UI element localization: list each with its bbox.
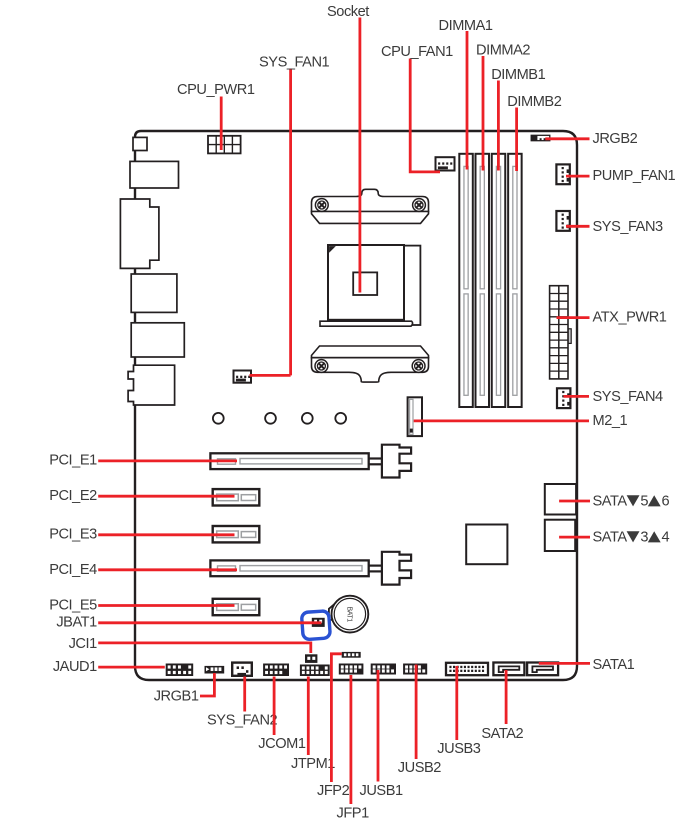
svg-text:JBAT1: JBAT1 bbox=[56, 615, 97, 631]
svg-text:PCI_E3: PCI_E3 bbox=[49, 527, 97, 543]
label DIMMB1 bbox=[491, 67, 545, 83]
label CPU_FAN1 bbox=[381, 44, 453, 60]
svg-text:DIMMB1: DIMMB1 bbox=[491, 67, 545, 83]
label SYS_FAN3 bbox=[593, 219, 664, 235]
wire DIMMA1 leader bbox=[466, 31, 469, 170]
label PUMP_FAN1 bbox=[593, 168, 676, 184]
svg-text:ATX_PWR1: ATX_PWR1 bbox=[593, 310, 667, 326]
svg-text:JTPM1: JTPM1 bbox=[291, 756, 335, 772]
label JFP2 bbox=[317, 783, 350, 799]
port SATA2 bbox=[493, 663, 524, 676]
mounting holes bbox=[213, 413, 346, 424]
slot PCI_E2 bbox=[213, 489, 260, 505]
wire CPU_FAN1 leader bbox=[410, 59, 440, 172]
slot PCI_E4 bbox=[210, 552, 411, 585]
connector ATX_PWR1 bbox=[550, 286, 572, 379]
header JUSB3 bbox=[446, 663, 488, 675]
wire SYS_FAN4 leader bbox=[564, 395, 590, 398]
wire Socket leader bbox=[358, 18, 361, 293]
wire JBAT1 leader bbox=[98, 621, 321, 624]
svg-text:PCI_E2: PCI_E2 bbox=[49, 488, 97, 504]
label M2_1 bbox=[593, 413, 628, 429]
wire JCI1 leader bbox=[98, 643, 311, 653]
header JRGB1 bbox=[205, 666, 225, 674]
label JFP1 bbox=[337, 806, 370, 822]
svg-text:JUSB1: JUSB1 bbox=[360, 783, 404, 799]
battery BAT1 bbox=[329, 596, 368, 633]
svg-text:DIMMB2: DIMMB2 bbox=[507, 94, 561, 110]
svg-text:SATA: SATA bbox=[593, 493, 628, 509]
svg-text:PCI_E5: PCI_E5 bbox=[49, 597, 97, 613]
label JUSB1 bbox=[360, 783, 404, 799]
rear I/O port USB-LAN lower bbox=[131, 323, 184, 357]
wire DIMMA2 leader bbox=[482, 56, 485, 171]
wire PCI_E4 leader bbox=[98, 568, 237, 571]
wire JUSB3 leader bbox=[455, 666, 458, 740]
board outline bbox=[135, 131, 577, 680]
connector SYS_FAN3 bbox=[556, 211, 569, 231]
label SATA2 bbox=[481, 726, 523, 742]
wire SYS_FAN1 leader bbox=[250, 69, 291, 376]
connector SYS_FAN2 bbox=[232, 663, 252, 676]
label JCI1 bbox=[69, 636, 98, 652]
label SYS_FAN4 bbox=[593, 389, 664, 405]
connector SATA 3-4 bbox=[545, 520, 575, 551]
wire SATA2 leader bbox=[505, 670, 508, 724]
label PCI_E2 bbox=[49, 488, 97, 504]
label SATA 5-6 bbox=[593, 493, 670, 509]
label SYS_FAN2 bbox=[207, 713, 278, 729]
svg-text:JCI1: JCI1 bbox=[69, 636, 98, 652]
svg-text:JUSB3: JUSB3 bbox=[437, 741, 481, 757]
svg-text:CPU_PWR1: CPU_PWR1 bbox=[177, 82, 255, 98]
wire DIMMB1 leader bbox=[497, 81, 500, 171]
svg-text:M2_1: M2_1 bbox=[593, 413, 628, 429]
rear I/O audio jacks bbox=[128, 365, 175, 405]
svg-text:JAUD1: JAUD1 bbox=[53, 659, 97, 675]
wire SYS_FAN2 leader bbox=[243, 677, 246, 712]
svg-text:DIMMA2: DIMMA2 bbox=[476, 42, 530, 58]
connector SATA 5-6 bbox=[545, 484, 576, 515]
connector CPU_FAN1 bbox=[436, 157, 455, 170]
label SATA1 bbox=[593, 657, 635, 673]
rear I/O port PS2 bbox=[130, 161, 179, 188]
svg-text:CPU_FAN1: CPU_FAN1 bbox=[381, 44, 453, 60]
svg-text:PCI_E1: PCI_E1 bbox=[49, 452, 97, 468]
svg-text:4: 4 bbox=[662, 529, 670, 545]
header JCOM1 bbox=[263, 664, 289, 677]
socket AM4 lever rail bbox=[404, 246, 421, 325]
rear I/O port DVI bbox=[120, 199, 158, 268]
wire CPU_PWR1 leader bbox=[220, 97, 223, 151]
rear I/O small square bbox=[133, 137, 147, 150]
header JUSB1 bbox=[371, 664, 396, 675]
label DIMMA1 bbox=[439, 18, 493, 34]
header JFP2 bbox=[342, 652, 361, 658]
connector M2_1 bbox=[408, 397, 422, 436]
svg-text:DIMMA1: DIMMA1 bbox=[439, 18, 493, 34]
slot PCI_E3 bbox=[213, 526, 260, 542]
wire JUSB1 leader bbox=[377, 670, 380, 782]
wire JFP1 leader bbox=[349, 675, 352, 804]
label Socket bbox=[327, 4, 369, 20]
connector SYS_FAN1 header bbox=[234, 371, 252, 383]
jumper JCI1 bbox=[305, 654, 317, 663]
wire JTPM1 leader bbox=[307, 677, 310, 756]
wire JRGB1 leader bbox=[200, 673, 214, 696]
svg-text:JRGB1: JRGB1 bbox=[154, 688, 199, 704]
socket bottom bracket bbox=[312, 346, 429, 382]
svg-text:SATA2: SATA2 bbox=[481, 726, 523, 742]
label PCI_E5 bbox=[49, 597, 97, 613]
socket top bracket bbox=[312, 189, 429, 223]
port SATA1 bbox=[527, 663, 558, 676]
wire JUSB2 leader bbox=[415, 665, 418, 760]
wire JAUD1 leader bbox=[98, 666, 165, 669]
header JTPM1 bbox=[300, 665, 330, 677]
svg-text:SATA1: SATA1 bbox=[593, 657, 635, 673]
wire DIMMB2 leader bbox=[515, 108, 518, 172]
label JUSB3 bbox=[437, 741, 481, 757]
DIMM slots DIMMA1 DIMMA2 DIMMB1 DIMMB2 bbox=[459, 154, 521, 407]
svg-text:JUSB2: JUSB2 bbox=[398, 760, 442, 776]
label ATX_PWR1 bbox=[593, 310, 667, 326]
wire PCI_E2 leader bbox=[98, 495, 234, 498]
label PCI_E4 bbox=[49, 562, 97, 578]
wire PCI_E5 leader bbox=[98, 604, 234, 607]
connector CPU_PWR1 bbox=[208, 136, 241, 154]
svg-text:BAT1: BAT1 bbox=[345, 607, 352, 623]
svg-text:JRGB2: JRGB2 bbox=[593, 131, 638, 147]
wire SATA 3-4 leader bbox=[559, 536, 590, 539]
svg-text:5: 5 bbox=[640, 493, 648, 509]
label CPU_PWR1 bbox=[177, 82, 255, 98]
label DIMMB2 bbox=[507, 94, 561, 110]
svg-text:SYS_FAN4: SYS_FAN4 bbox=[593, 389, 664, 405]
label PCI_E3 bbox=[49, 527, 97, 543]
wire SYS_FAN3 leader bbox=[566, 225, 590, 228]
svg-text:JFP2: JFP2 bbox=[317, 783, 350, 799]
slot PCI_E5 bbox=[213, 599, 260, 615]
header JUSB2 bbox=[403, 664, 427, 675]
jumper JBAT1 bbox=[301, 611, 330, 640]
slot PCI_E1 bbox=[210, 445, 411, 478]
label PCI_E1 bbox=[49, 452, 97, 468]
svg-text:JCOM1: JCOM1 bbox=[258, 736, 306, 752]
wire PCI_E3 leader bbox=[98, 533, 234, 536]
wire PCI_E1 leader bbox=[98, 459, 237, 462]
connector PUMP_FAN1 bbox=[556, 164, 569, 184]
header JFP1 bbox=[339, 664, 364, 675]
label JCOM1 bbox=[258, 736, 306, 752]
label JUSB2 bbox=[398, 760, 442, 776]
svg-text:PUMP_FAN1: PUMP_FAN1 bbox=[593, 168, 676, 184]
wire SATA1 leader bbox=[539, 662, 590, 665]
label JRGB2 bbox=[593, 131, 638, 147]
wire JFP2 leader bbox=[331, 654, 341, 782]
label JTPM1 bbox=[291, 756, 335, 772]
svg-text:Socket: Socket bbox=[327, 4, 369, 20]
svg-text:JFP1: JFP1 bbox=[337, 806, 370, 822]
label JRGB1 bbox=[154, 688, 199, 704]
connector JRGB2 bbox=[531, 135, 550, 140]
svg-text:6: 6 bbox=[662, 493, 670, 509]
label JAUD1 bbox=[53, 659, 97, 675]
chipset bbox=[466, 525, 507, 565]
wire JCOM1 leader bbox=[273, 677, 276, 736]
wire SATA 5-6 leader bbox=[559, 500, 590, 503]
svg-text:SYS_FAN3: SYS_FAN3 bbox=[593, 219, 664, 235]
wire M2_1 leader bbox=[414, 419, 589, 422]
connector SYS_FAN4 bbox=[557, 388, 570, 408]
svg-text:3: 3 bbox=[640, 529, 648, 545]
socket AM4 body bbox=[328, 245, 404, 320]
svg-text:SATA: SATA bbox=[593, 529, 628, 545]
label SATA 3-4 bbox=[593, 529, 670, 545]
label SYS_FAN1 bbox=[259, 54, 330, 70]
label JBAT1 bbox=[56, 615, 97, 631]
socket bottom bar bbox=[320, 321, 413, 326]
svg-text:SYS_FAN1: SYS_FAN1 bbox=[259, 54, 330, 70]
wire ATX_PWR1 leader bbox=[557, 316, 590, 319]
wire JRGB2 leader bbox=[545, 137, 589, 140]
rear I/O port USB-LAN upper bbox=[131, 274, 177, 312]
label DIMMA2 bbox=[476, 42, 530, 58]
svg-text:SYS_FAN2: SYS_FAN2 bbox=[207, 713, 278, 729]
svg-text:PCI_E4: PCI_E4 bbox=[49, 562, 97, 578]
wire PUMP_FAN1 leader bbox=[566, 175, 590, 178]
header JAUD1 bbox=[166, 664, 194, 677]
